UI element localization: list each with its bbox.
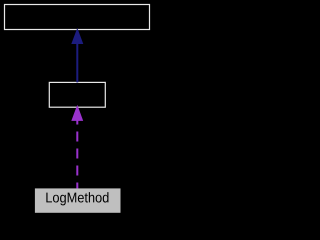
edge: solid inheritance arrow shaft (middle box to top box) [76, 44, 78, 83]
label: LogMethod [46, 192, 108, 205]
node: middle class box [49, 82, 105, 107]
node: top base-class box [5, 5, 150, 30]
edge: dashed usage arrowhead [71, 105, 83, 121]
node: LogMethod box [35, 188, 121, 212]
edge: dashed usage arrow shaft (LogMethod to middle box) [76, 121, 78, 189]
edge: solid inheritance arrowhead [71, 28, 83, 44]
